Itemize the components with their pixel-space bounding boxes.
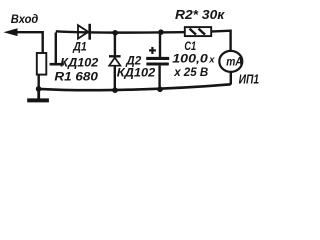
- svg-text:х 25 В: х 25 В: [173, 65, 208, 79]
- svg-text:Вход: Вход: [11, 12, 39, 26]
- svg-text:R1 680: R1 680: [54, 70, 98, 84]
- svg-text:100,0х: 100,0х: [172, 51, 215, 65]
- svg-text:R2* 30к: R2* 30к: [175, 7, 225, 22]
- svg-text:mA: mA: [226, 54, 243, 68]
- svg-text:ИП1: ИП1: [239, 73, 260, 87]
- svg-text:КД102: КД102: [117, 65, 156, 79]
- svg-text:Д1: Д1: [72, 40, 87, 54]
- svg-text:КД102: КД102: [60, 56, 98, 70]
